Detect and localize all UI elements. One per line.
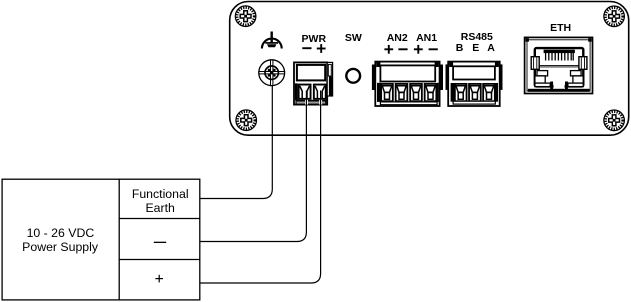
svg-text:PWR: PWR	[302, 33, 327, 45]
svg-text:AN1: AN1	[416, 32, 437, 44]
svg-text:B: B	[456, 42, 464, 54]
svg-text:AN2: AN2	[387, 32, 408, 44]
svg-text:10 - 26 VDC: 10 - 26 VDC	[27, 226, 95, 240]
svg-text:Earth: Earth	[145, 201, 175, 215]
svg-text:Functional: Functional	[132, 187, 189, 201]
svg-text:Power Supply: Power Supply	[22, 240, 99, 254]
svg-text:A: A	[487, 42, 495, 54]
svg-text:ETH: ETH	[550, 22, 571, 34]
svg-text:E: E	[472, 42, 479, 54]
svg-text:SW: SW	[345, 32, 362, 44]
